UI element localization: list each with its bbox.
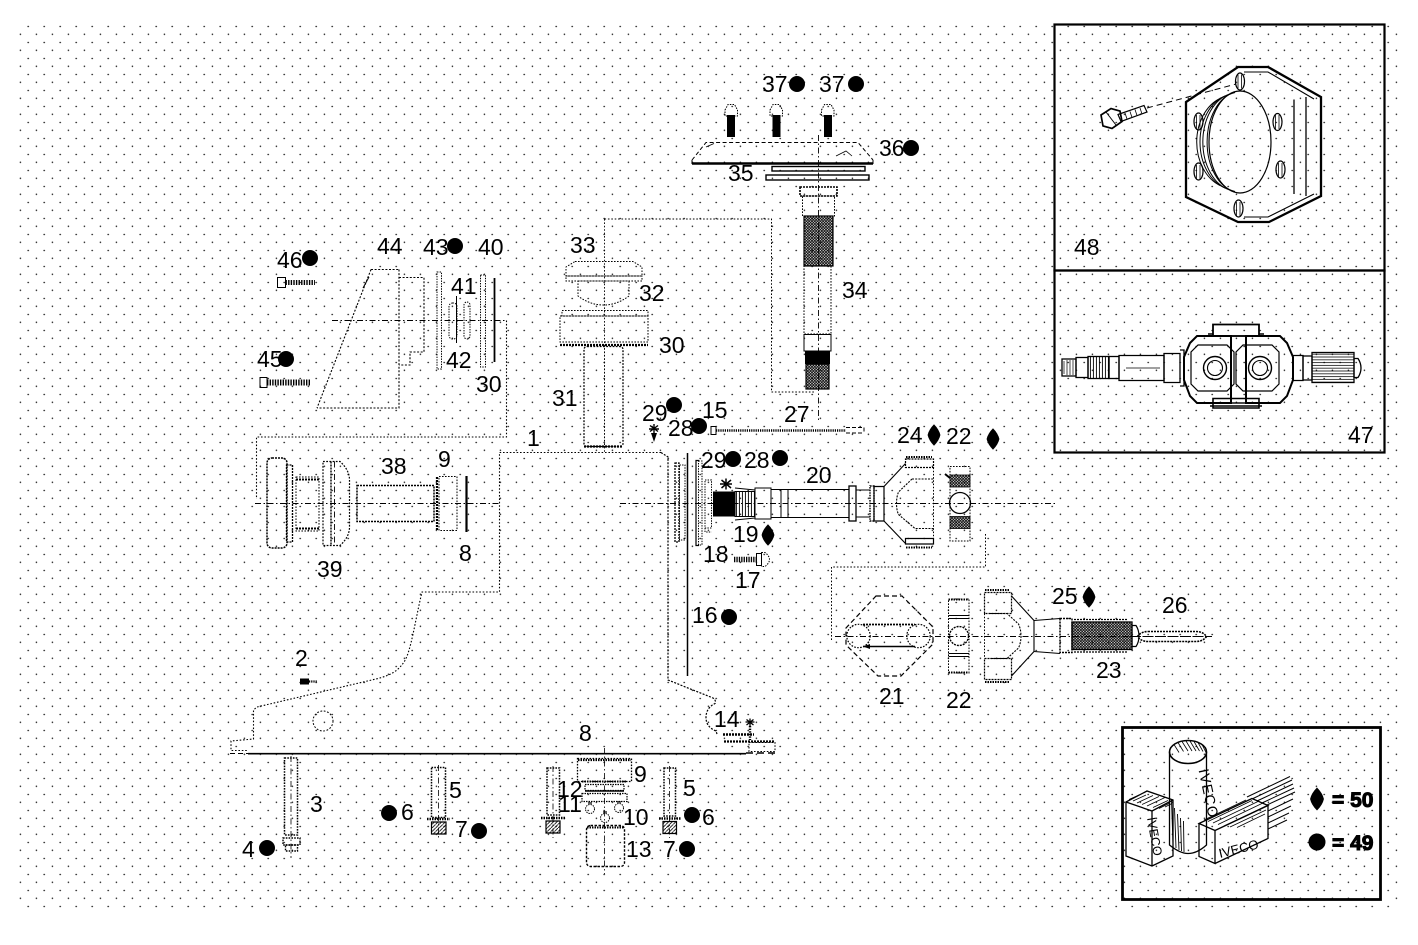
part 31 spacer cylinder (584, 347, 623, 447)
splined hub 20 (713, 488, 755, 520)
seal ring F (705, 480, 712, 532)
centerline shaft 20 (620, 503, 1055, 505)
svg-text:36: 36 (879, 135, 905, 161)
washer 41 tall (437, 272, 442, 369)
bolt 3 (283, 756, 300, 858)
housing 1 outline top-left (257, 321, 507, 500)
svg-text:14: 14 (714, 706, 740, 732)
yoke 23 (985, 590, 1073, 682)
svg-text:30: 30 (659, 332, 685, 358)
svg-text:2: 2 (295, 645, 308, 671)
part 8 shim (465, 476, 467, 532)
svg-text:3: 3 (310, 791, 323, 817)
svg-text:1: 1 (527, 425, 540, 451)
housing 1 baseline (230, 752, 776, 755)
bolt 37b (770, 105, 783, 138)
dashed link 22 to 21 (832, 534, 986, 640)
part 30 washer stack (560, 311, 648, 346)
spider 47 center body (1184, 325, 1293, 409)
svg-text:5: 5 (683, 775, 696, 801)
leader line 48 (1147, 84, 1236, 108)
seal plate E (699, 461, 703, 545)
part 39 disc (267, 458, 287, 548)
svg-text:29: 29 (701, 447, 727, 473)
logo speed lines (1247, 777, 1295, 830)
spider 47 right shaft (1293, 353, 1361, 383)
bolt 5 right (659, 766, 681, 838)
logo right box (1199, 799, 1268, 864)
svg-text:19: 19 (733, 521, 759, 547)
tie rod 26 (1130, 632, 1212, 642)
label 6 right with dot (684, 804, 715, 830)
housing 1 outline main (231, 453, 661, 751)
cup 9 (578, 759, 632, 782)
shaft 20 body (755, 486, 870, 521)
label 28 lower with dot (744, 447, 788, 473)
svg-text:10: 10 (623, 804, 649, 830)
svg-text:27: 27 (784, 401, 810, 427)
threaded rod 27 (711, 427, 864, 435)
svg-text:28: 28 (744, 447, 770, 473)
shaft 34 (800, 187, 837, 389)
label 24 with diamond (897, 422, 940, 448)
svg-text:30: 30 (476, 371, 502, 397)
bolt 46 (278, 278, 316, 288)
label 43 with dot (423, 234, 463, 260)
svg-text:31: 31 (552, 385, 578, 411)
small screw 28 above hub (720, 479, 732, 490)
svg-text:18: 18 (703, 541, 729, 567)
svg-text:5: 5 (449, 777, 462, 803)
label 22 upper with diamond (946, 423, 999, 450)
svg-text:42: 42 (446, 347, 472, 373)
label 37 right with dot (819, 71, 864, 97)
svg-text:16: 16 (692, 602, 718, 628)
bearing 22 lower (949, 599, 970, 673)
screw 29 upper small (649, 424, 659, 442)
plate 44 (317, 270, 424, 409)
svg-text:43: 43 (423, 234, 449, 260)
screw 2 (300, 679, 317, 685)
legend diamond = 50 (1311, 788, 1374, 812)
label 46 with dot (277, 247, 318, 273)
bolt in box 48 (1101, 106, 1147, 129)
seal shim C (687, 453, 689, 676)
svg-text:IVECO: IVECO (1217, 837, 1260, 861)
yoke 20 fork (870, 457, 934, 548)
svg-text:17: 17 (735, 567, 761, 593)
housing 1 foot right (723, 735, 775, 752)
clips 10 (586, 802, 624, 823)
bolt 37a (725, 105, 738, 138)
svg-text:9: 9 (438, 446, 451, 472)
flange 48 body (1186, 67, 1321, 222)
housing rib A (675, 463, 679, 542)
svg-text:8: 8 (579, 720, 592, 746)
seal plate D (696, 461, 699, 546)
svg-text:15: 15 (702, 397, 728, 423)
svg-text:39: 39 (317, 556, 343, 582)
svg-text:29: 29 (642, 400, 668, 426)
washers 11 (582, 785, 627, 802)
svg-text:6: 6 (702, 804, 715, 830)
legend box frame (1123, 728, 1381, 900)
label 7 left with dot (455, 816, 487, 842)
centerline lower row (835, 636, 1212, 638)
centerline shaft row (255, 503, 500, 505)
screw 17 (734, 553, 770, 567)
part 38 shaft (357, 486, 434, 522)
svg-text:44: 44 (377, 233, 403, 259)
housing 1 bolt hole (313, 711, 333, 731)
label 29 lower with dot (701, 447, 741, 473)
svg-text:26: 26 (1162, 592, 1188, 618)
svg-text:IVECO: IVECO (1195, 768, 1221, 820)
inset box 48 frame (1055, 25, 1385, 271)
bearing 22 upper (945, 467, 971, 542)
part 39 drum (323, 462, 350, 546)
spider 47 left shaft (1062, 350, 1184, 386)
centerline bottom center (604, 748, 606, 874)
bolt 5 left (427, 765, 450, 840)
label 19 with diamond (733, 521, 774, 547)
construction line to 34 (605, 219, 815, 392)
centerline washers row (332, 320, 506, 322)
centerline of shaft 34 (818, 135, 820, 420)
seal plate B (680, 465, 686, 540)
svg-text:37: 37 (819, 71, 845, 97)
svg-text:7: 7 (663, 836, 676, 862)
label 37 left with dot (762, 71, 805, 97)
svg-text:22: 22 (946, 687, 972, 713)
washer 40 tall (481, 275, 486, 367)
label 16 with dot (692, 602, 737, 628)
svg-text:38: 38 (381, 453, 407, 479)
svg-text:23: 23 (1096, 657, 1122, 683)
svg-text:6: 6 (401, 799, 414, 825)
gasket 30 under plate 35 (766, 167, 869, 181)
svg-text:8: 8 (459, 540, 472, 566)
svg-text:7: 7 (455, 816, 468, 842)
bolt 45 (260, 378, 310, 388)
svg-text:34: 34 (842, 277, 868, 303)
centerline 33-31 (604, 219, 606, 452)
label 28 upper with dot (668, 415, 707, 441)
svg-text:= 49: = 49 (1332, 832, 1373, 855)
svg-text:20: 20 (806, 462, 832, 488)
flange 48 bolt holes (1194, 73, 1285, 217)
inset box 47 frame (1055, 271, 1385, 453)
svg-text:33: 33 (570, 232, 596, 258)
svg-text:48: 48 (1074, 234, 1100, 260)
legend dot = 49 (1309, 832, 1373, 855)
bolt 12 (541, 766, 566, 838)
part 9 ring shaft (437, 477, 457, 531)
svg-text:37: 37 (762, 71, 788, 97)
svg-text:32: 32 (639, 280, 665, 306)
svg-text:24: 24 (897, 422, 923, 448)
part 39 sleeve (296, 477, 319, 531)
label 25 with diamond (1052, 583, 1095, 609)
svg-text:13: 13 (626, 836, 652, 862)
svg-text:IVECO: IVECO (1144, 816, 1165, 857)
label 7 right with dot (663, 836, 695, 862)
svg-text:40: 40 (478, 234, 504, 260)
svg-text:47: 47 (1348, 422, 1374, 448)
label 4 with dot (242, 836, 275, 862)
svg-text:25: 25 (1052, 583, 1078, 609)
logo cylinder (1170, 741, 1221, 854)
hex flange 21 (846, 596, 933, 676)
cover plate 35 (692, 143, 873, 164)
rings 42 (449, 296, 470, 343)
label 29 upper with dot (642, 397, 682, 426)
cup 13 (587, 826, 625, 867)
shim 30 left (494, 278, 496, 362)
svg-text:46: 46 (277, 247, 303, 273)
svg-text:21: 21 (879, 683, 905, 709)
svg-text:41: 41 (451, 273, 477, 299)
svg-text:28: 28 (668, 415, 694, 441)
svg-text:11: 11 (558, 791, 582, 817)
label 6 left with dot (381, 799, 414, 825)
threaded shaft 23 (1072, 620, 1139, 653)
svg-text:9: 9 (634, 761, 647, 787)
part 39 ring (287, 465, 293, 542)
svg-text:= 50: = 50 (1332, 789, 1373, 812)
housing 1 right edge (661, 453, 717, 735)
screw 14 small (746, 719, 755, 741)
part 32 cap nut (566, 262, 642, 306)
logo left box (1126, 791, 1173, 866)
label 45 with dot (257, 346, 294, 372)
svg-text:22: 22 (946, 423, 972, 449)
bolt 37c (822, 105, 835, 138)
svg-text:4: 4 (242, 836, 255, 862)
label 36 with dot (879, 135, 919, 161)
